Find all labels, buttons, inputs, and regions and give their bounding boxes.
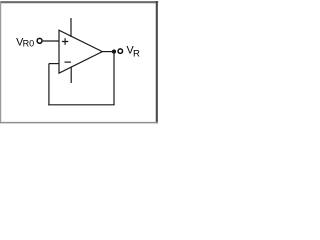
- wire output: [102, 51, 114, 53]
- wire noninverting input: [43, 40, 59, 42]
- border frame bottom: [0, 122, 158, 124]
- wire feedback left vertical: [48, 64, 50, 106]
- border frame top: [0, 1, 158, 3]
- minus sign inverting: [65, 61, 72, 63]
- wire inverting input: [49, 63, 59, 65]
- border frame right: [156, 1, 158, 123]
- svg-text:R0: R0: [23, 39, 35, 49]
- wire feedback right vertical: [113, 52, 115, 105]
- power pin top: [70, 18, 72, 37]
- plus sign noninverting: [62, 38, 68, 45]
- output terminal circle: [118, 49, 123, 54]
- op-amp U1 triangle: [59, 30, 102, 73]
- power pin bottom: [70, 67, 72, 83]
- wire feedback bottom: [48, 104, 114, 106]
- border frame left: [0, 1, 2, 123]
- junction dot: [112, 50, 116, 54]
- input terminal circle: [37, 38, 42, 43]
- svg-text:R: R: [133, 48, 140, 59]
